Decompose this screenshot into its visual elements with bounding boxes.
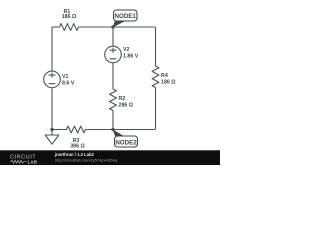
svg-text:186 Ω: 186 Ω bbox=[62, 14, 77, 20]
svg-text:186 Ω: 186 Ω bbox=[161, 80, 176, 86]
svg-text:V1: V1 bbox=[62, 74, 69, 80]
svg-text:1.86 V: 1.86 V bbox=[123, 53, 139, 59]
svg-text:R4: R4 bbox=[161, 73, 168, 79]
svg-text:V2: V2 bbox=[123, 47, 130, 53]
svg-text:286 Ω: 286 Ω bbox=[119, 102, 134, 108]
svg-text:386 Ω: 386 Ω bbox=[70, 143, 85, 149]
svg-text:R2: R2 bbox=[119, 96, 126, 102]
svg-text:LAB: LAB bbox=[28, 160, 38, 165]
svg-text:http://circuitlab.com/cy574px4: http://circuitlab.com/cy574px432wq bbox=[55, 157, 117, 162]
svg-text:8.6 V: 8.6 V bbox=[62, 80, 75, 86]
svg-text:NODE2: NODE2 bbox=[115, 139, 137, 146]
svg-text:NODE1: NODE1 bbox=[115, 13, 137, 20]
